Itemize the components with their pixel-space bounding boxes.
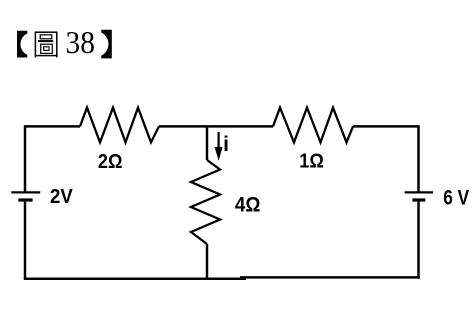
wire right (battery V2 minus to bottom) bbox=[417, 202, 420, 279]
title glyph 圖 bbox=[35, 32, 56, 57]
battery V2 long plate bbox=[405, 191, 433, 193]
node A wire (top junction down to resistor R3) bbox=[206, 126, 209, 160]
wire left (battery V1 minus to bottom) bbox=[24, 202, 27, 279]
battery V1 short plate bbox=[18, 198, 32, 201]
label 1Ω bbox=[299, 151, 324, 173]
svg-text:38: 38 bbox=[66, 25, 95, 60]
battery V2 short plate bbox=[412, 198, 425, 201]
label 6 V bbox=[443, 187, 469, 210]
svg-text:4Ω: 4Ω bbox=[235, 193, 261, 216]
title text 38 bbox=[66, 25, 95, 60]
wire bottom-right bbox=[240, 276, 420, 279]
wire middle-bottom (R3 to bottom wire) bbox=[206, 244, 209, 279]
svg-text:1Ω: 1Ω bbox=[299, 151, 324, 173]
title left bracket 【 bbox=[17, 31, 27, 58]
resistor R1 2Ω zigzag bbox=[80, 108, 159, 143]
battery V1 long plate bbox=[11, 191, 40, 193]
svg-text:2V: 2V bbox=[50, 185, 73, 208]
svg-text:i: i bbox=[223, 133, 229, 156]
svg-text:2Ω: 2Ω bbox=[98, 151, 123, 173]
label i bbox=[223, 133, 229, 156]
resistor R3 4Ω zigzag (vertical) bbox=[191, 160, 220, 244]
title right bracket 】 bbox=[101, 30, 112, 59]
wire bottom-left bbox=[24, 278, 246, 281]
resistor R2 1Ω zigzag bbox=[273, 108, 353, 143]
label 2V bbox=[50, 185, 73, 208]
wire top-right (R2 to battery V2) bbox=[353, 126, 419, 192]
current arrow i bbox=[215, 132, 223, 161]
label 2Ω bbox=[98, 151, 123, 173]
wire top-middle (R1 to R2 through node A) bbox=[159, 125, 273, 128]
label 4Ω bbox=[235, 193, 261, 216]
svg-text:6 V: 6 V bbox=[443, 187, 469, 210]
wire top-left (battery V1 plus to resistor R1) bbox=[25, 126, 80, 192]
